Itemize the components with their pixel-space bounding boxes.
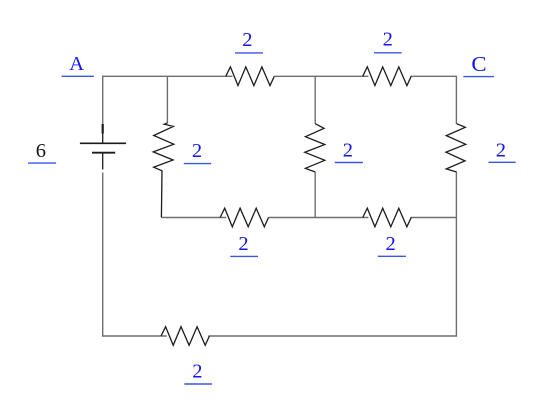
- svg-text:2: 2: [192, 140, 202, 162]
- svg-text:2: 2: [383, 29, 393, 51]
- svg-text:2: 2: [242, 29, 252, 51]
- svg-text:2: 2: [386, 233, 396, 255]
- svg-text:6: 6: [36, 140, 46, 162]
- svg-text:2: 2: [496, 139, 506, 161]
- svg-text:C: C: [471, 52, 486, 76]
- svg-text:2: 2: [343, 139, 353, 161]
- svg-text:2: 2: [238, 233, 248, 255]
- svg-text:2: 2: [192, 361, 202, 383]
- svg-text:A: A: [69, 53, 84, 75]
